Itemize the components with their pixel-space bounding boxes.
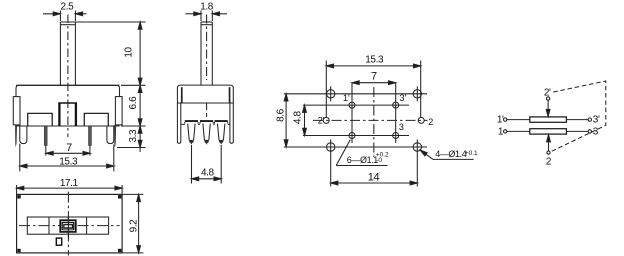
svg-text:2': 2' [544,87,551,98]
svg-text:2: 2 [546,156,552,167]
svg-text:14: 14 [368,172,380,184]
svg-text:3': 3' [400,93,407,103]
svg-text:6.6: 6.6 [128,96,139,110]
svg-text:4.8: 4.8 [201,167,215,178]
svg-text:10: 10 [124,47,135,58]
svg-text:1.8: 1.8 [200,2,214,13]
svg-text:6—Ø1.1: 6—Ø1.1 [347,155,379,165]
svg-text:1: 1 [498,127,504,138]
svg-text:17.1: 17.1 [60,178,79,189]
svg-text:8.6: 8.6 [275,108,286,122]
svg-text:7: 7 [371,70,377,82]
svg-text:4—Ø1.4: 4—Ø1.4 [435,149,467,159]
svg-text:1': 1' [497,115,504,126]
svg-text:4.8: 4.8 [292,111,303,125]
svg-text:3': 3' [593,115,600,126]
svg-text:2: 2 [428,117,433,127]
svg-text:3.3: 3.3 [128,129,139,143]
svg-text:3: 3 [399,122,404,132]
svg-text:3: 3 [593,127,599,138]
svg-text:2.5: 2.5 [61,2,75,13]
svg-text:15.3: 15.3 [59,156,78,167]
svg-text:2': 2' [318,115,325,125]
svg-text:7: 7 [66,142,72,154]
svg-text:1': 1' [343,93,350,103]
svg-text:15.3: 15.3 [365,54,384,65]
svg-text:+0.1: +0.1 [465,150,478,157]
svg-text:9.2: 9.2 [129,219,140,233]
svg-text:-0: -0 [376,157,382,164]
